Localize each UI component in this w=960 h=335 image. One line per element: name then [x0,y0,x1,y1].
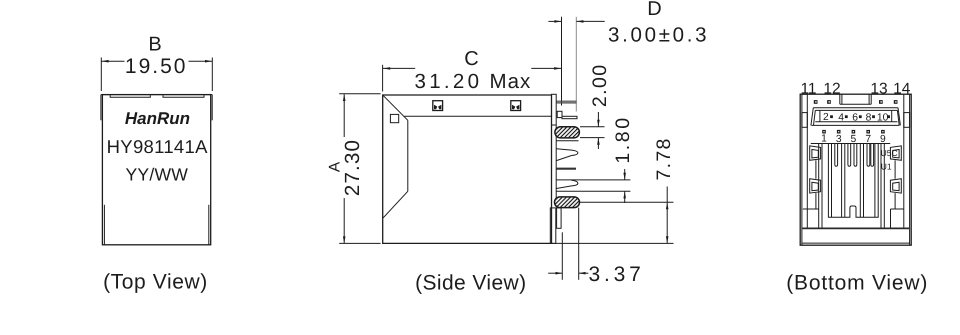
svg-text:6: 6 [852,112,858,123]
svg-text:1.80: 1.80 [612,115,634,163]
svg-text:Max: Max [490,70,532,93]
svg-text:31.20: 31.20 [415,70,483,93]
svg-text:10: 10 [877,112,889,123]
svg-text:D: D [647,0,661,20]
svg-text:C: C [464,48,478,70]
svg-text:U1: U1 [881,162,892,172]
svg-text:HY981141A: HY981141A [107,136,208,157]
svg-text:11: 11 [800,80,816,97]
svg-text:1: 1 [821,134,827,145]
svg-text:13: 13 [870,80,887,97]
svg-text:(Side View): (Side View) [415,272,526,295]
svg-text:19.50: 19.50 [125,55,188,78]
svg-text:12: 12 [823,80,840,97]
svg-text:YY/WW: YY/WW [126,165,189,185]
svg-text:8: 8 [866,112,872,123]
svg-text:27.30: 27.30 [341,139,364,196]
svg-text:B: B [148,34,161,56]
svg-text:HanRun: HanRun [125,109,190,128]
svg-text:U5C: U5C [881,148,898,158]
svg-text:2: 2 [823,112,829,123]
svg-text:3.37: 3.37 [589,263,645,286]
svg-text:(Top View): (Top View) [103,270,208,293]
svg-text:7.78: 7.78 [653,137,675,180]
svg-text:14: 14 [893,80,911,97]
svg-text:2.00: 2.00 [589,64,611,108]
svg-text:(Bottom View): (Bottom View) [786,272,928,295]
svg-text:4: 4 [838,112,844,123]
svg-text:3.00±0.3: 3.00±0.3 [608,24,709,47]
